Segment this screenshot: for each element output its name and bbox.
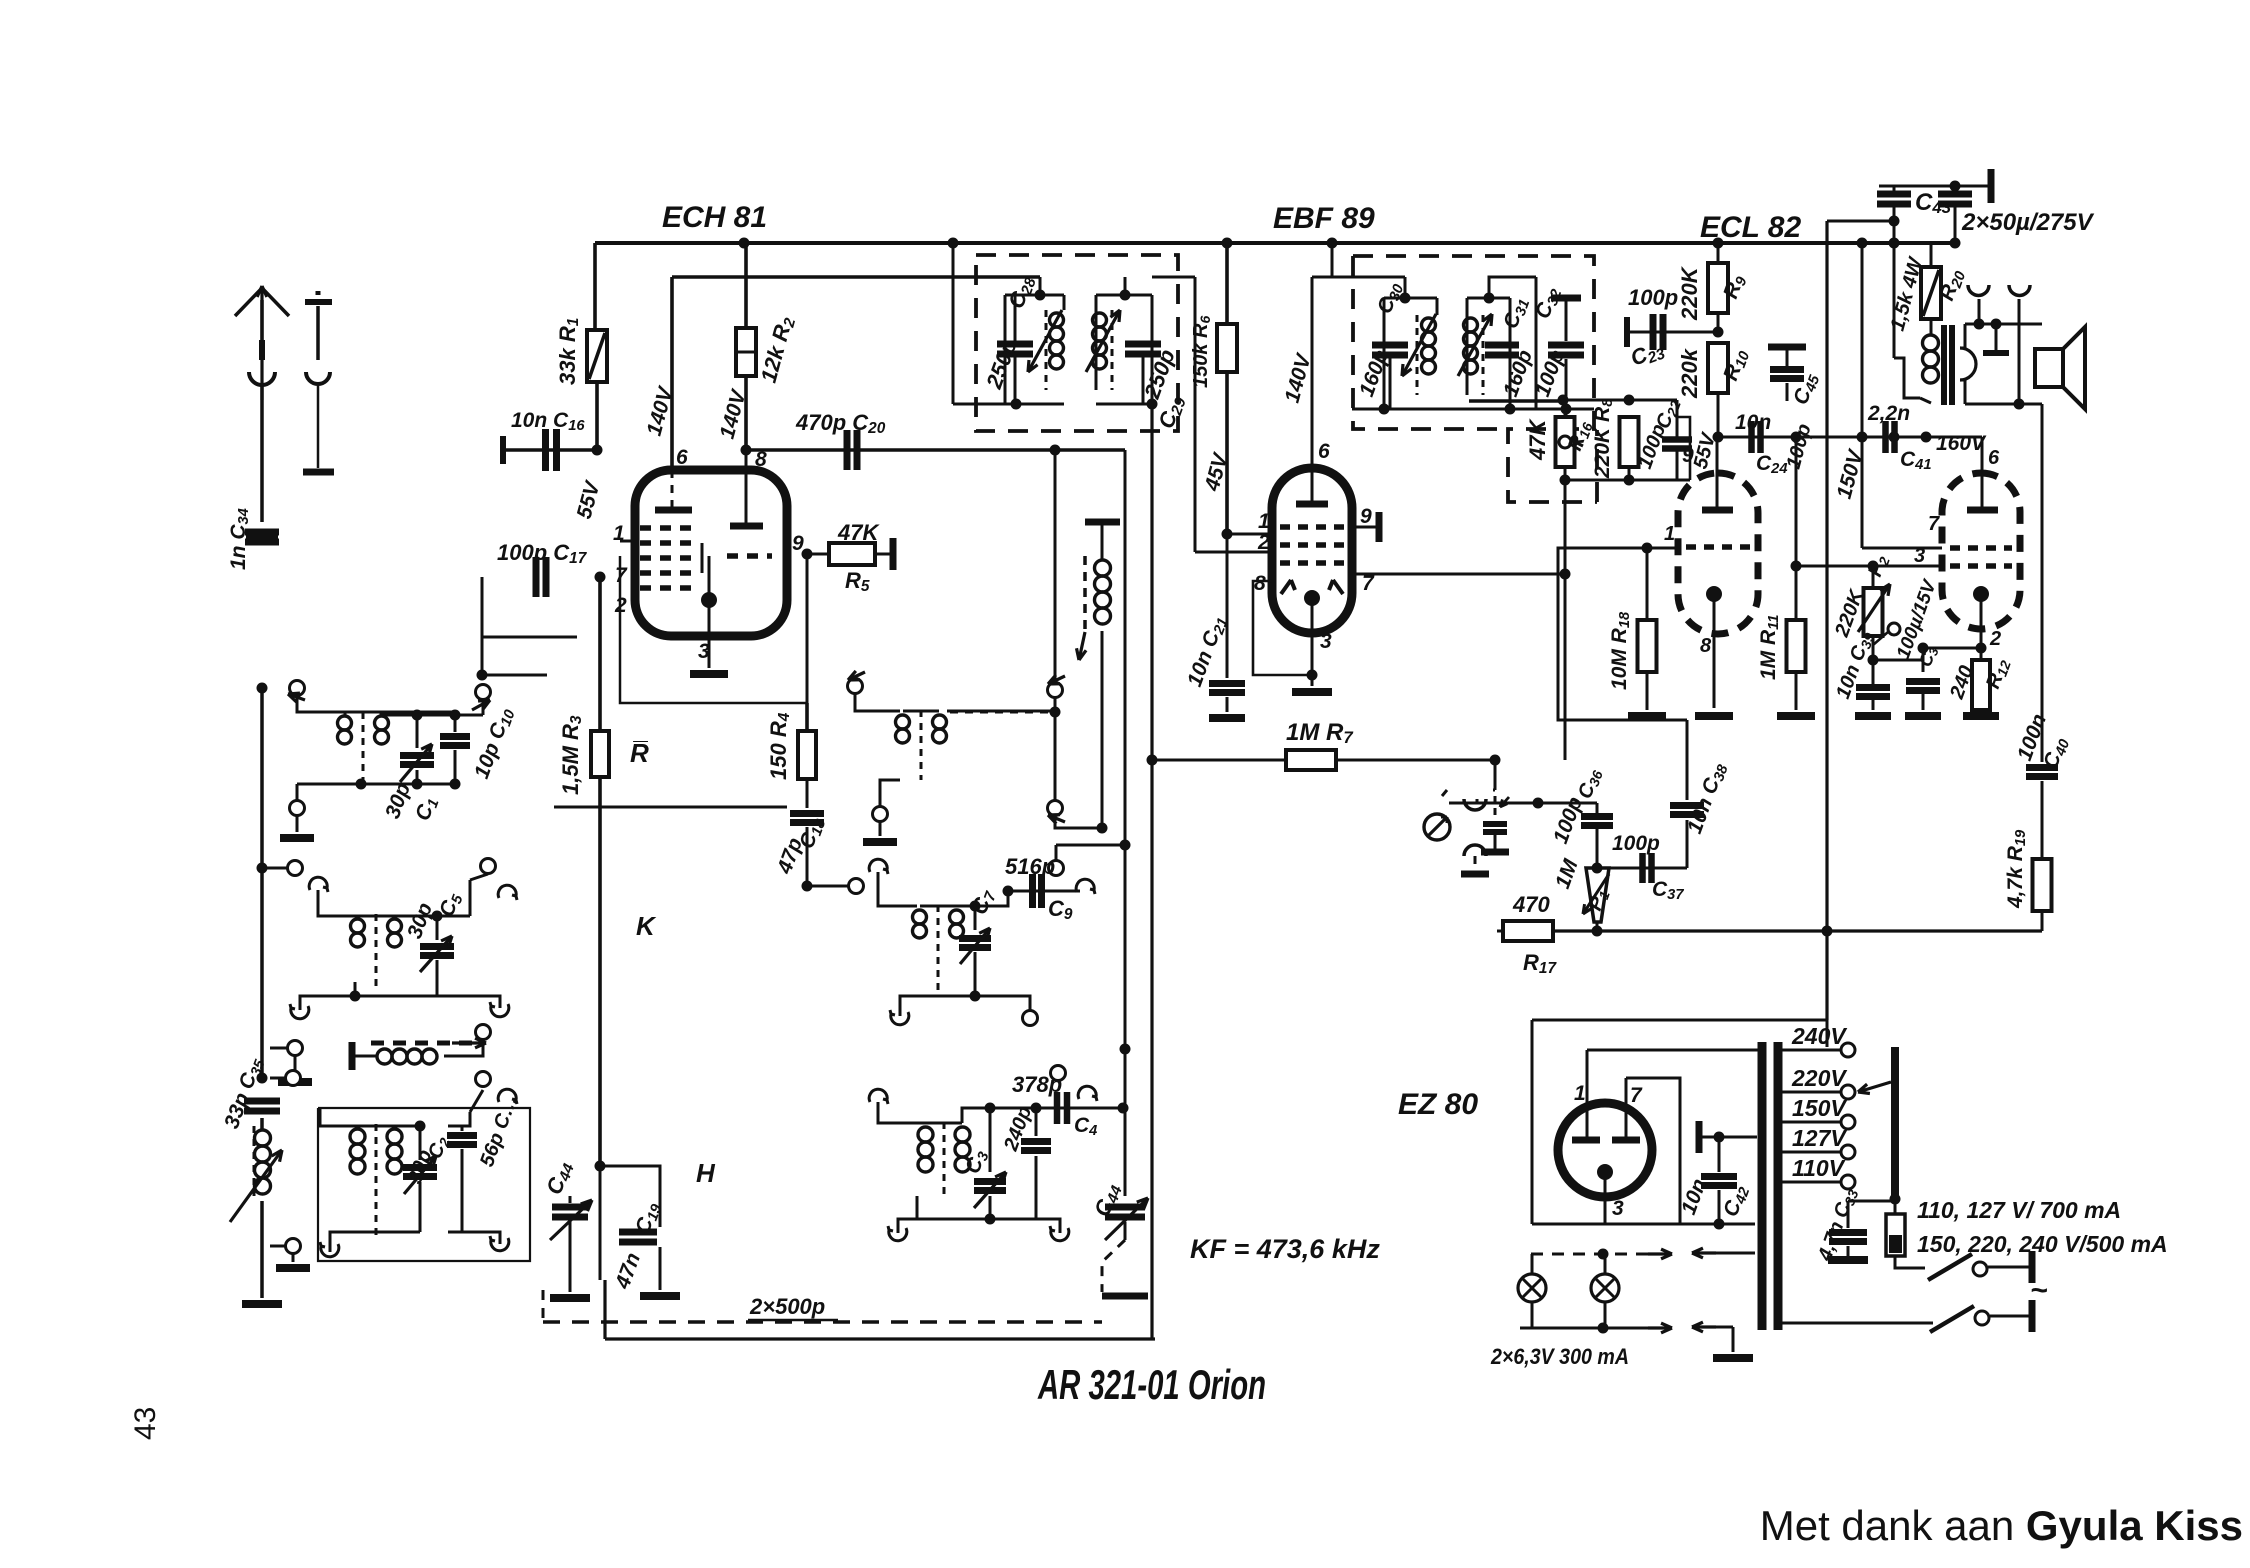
svg-text:9: 9 [1682, 444, 1694, 467]
svg-text:470: 470 [1512, 892, 1550, 917]
svg-text:K: K [636, 911, 657, 941]
svg-text:Met dank aan Gyula Kiss: Met dank aan Gyula Kiss [1760, 1502, 2243, 1549]
svg-text:2×6,3V 300 mA: 2×6,3V 300 mA [1490, 1344, 1629, 1369]
svg-text:1: 1 [1664, 523, 1675, 545]
svg-text:160V: 160V [1936, 432, 1987, 455]
svg-text:100p: 100p [1628, 285, 1678, 310]
svg-text:H: H [696, 1158, 716, 1188]
svg-text:127V: 127V [1792, 1125, 1847, 1151]
svg-text:10n: 10n [1735, 411, 1771, 434]
svg-text:2×50µ/275V: 2×50µ/275V [1961, 209, 2095, 236]
svg-text:7: 7 [1928, 513, 1940, 535]
svg-text:EBF 89: EBF 89 [1273, 202, 1375, 235]
svg-text:220k: 220k [1677, 347, 1702, 399]
svg-text:1: 1 [1574, 1082, 1586, 1105]
svg-text:220V: 220V [1791, 1065, 1847, 1091]
svg-text:9: 9 [1360, 505, 1372, 528]
svg-text:6: 6 [1988, 447, 2000, 469]
svg-text:ECH 81: ECH 81 [662, 201, 767, 234]
svg-text:100p: 100p [1612, 832, 1660, 855]
svg-text:1,5M R3: 1,5M R3 [558, 715, 585, 795]
svg-text:110V: 110V [1792, 1155, 1846, 1181]
svg-text:KF = 473,6 kHz: KF = 473,6 kHz [1190, 1234, 1380, 1264]
svg-text:8: 8 [1254, 572, 1266, 595]
svg-text:3: 3 [1320, 630, 1332, 653]
svg-text:3: 3 [1914, 545, 1925, 567]
svg-text:150 R4: 150 R4 [766, 712, 793, 780]
svg-text:7: 7 [1362, 572, 1375, 595]
svg-text:2: 2 [1989, 628, 2001, 650]
svg-text:6: 6 [676, 446, 688, 469]
svg-text:2: 2 [1257, 531, 1270, 554]
svg-text:ECL 82: ECL 82 [1700, 211, 1801, 244]
svg-text:2×500p: 2×500p [749, 1294, 825, 1319]
svg-text:150k R6: 150k R6 [1190, 316, 1213, 389]
svg-text:33k R1: 33k R1 [555, 318, 582, 385]
svg-text:EZ 80: EZ 80 [1398, 1088, 1478, 1121]
svg-text:150, 220, 240 V/500 mA: 150, 220, 240 V/500 mA [1917, 1231, 2168, 1257]
svg-text:47K: 47K [837, 520, 880, 545]
svg-text:1: 1 [1258, 510, 1270, 533]
svg-text:8: 8 [755, 448, 767, 471]
svg-text:47K: 47K [1525, 418, 1550, 461]
svg-text:1M R7: 1M R7 [1286, 719, 1353, 747]
svg-text:150V: 150V [1792, 1095, 1847, 1121]
svg-text:7: 7 [615, 564, 628, 587]
svg-text:AR 321-01 Orion: AR 321-01 Orion [1037, 1361, 1266, 1408]
svg-text:3: 3 [1612, 1197, 1624, 1220]
svg-text:110, 127 V/ 700 mA: 110, 127 V/ 700 mA [1917, 1197, 2121, 1223]
svg-text:7: 7 [1630, 1084, 1643, 1107]
svg-text:8: 8 [1700, 635, 1712, 657]
svg-text:220K R8: 220K R8 [1591, 398, 1616, 479]
svg-text:240V: 240V [1791, 1023, 1847, 1049]
svg-text:2,2n: 2,2n [1867, 402, 1910, 425]
svg-text:3: 3 [698, 640, 710, 663]
svg-text:R̅: R̅ [630, 738, 649, 768]
svg-text:43: 43 [129, 1407, 162, 1440]
svg-text:220K: 220K [1677, 265, 1702, 321]
svg-text:6: 6 [1318, 440, 1330, 463]
